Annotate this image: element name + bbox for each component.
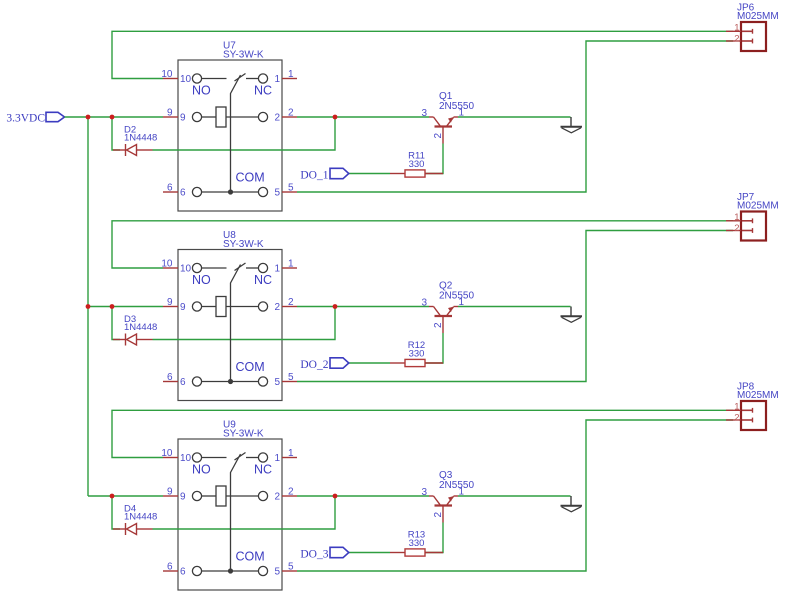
relay U8 COM contact: [192, 377, 267, 386]
wire relay pin2 to Q1 collector: [297, 116, 429, 118]
junction diode branch row 3: [110, 494, 115, 499]
wire JP7 pin2 to relay pin5 (COM net): [297, 231, 733, 382]
svg-text:6: 6: [180, 377, 186, 388]
svg-text:2: 2: [734, 223, 739, 234]
wire DO_1 port to R11: [349, 173, 390, 175]
svg-text:5: 5: [274, 377, 280, 388]
wire JP7 pin1 to relay pin10 (NO net): [112, 221, 733, 268]
wire R13 to Q3 base: [425, 523, 443, 553]
svg-text:10: 10: [180, 264, 192, 275]
relay U9 NO contact: [192, 453, 226, 462]
svg-text:9: 9: [180, 302, 186, 313]
svg-text:330: 330: [409, 349, 425, 360]
svg-text:M025MM: M025MM: [737, 201, 779, 212]
wire JP8 pin2 to relay pin5 (COM net): [297, 420, 733, 571]
transistor Q2 2N5550: [429, 307, 458, 334]
svg-text:6: 6: [180, 188, 186, 199]
svg-text:330: 330: [409, 159, 425, 170]
junction diode branch row 1: [110, 115, 115, 120]
connector JP7 designator: [737, 192, 779, 212]
transistor Q3 designator: [439, 470, 474, 491]
junction diode branch row 2: [110, 304, 115, 309]
svg-text:5: 5: [288, 183, 294, 194]
relay U9 armature: [231, 454, 241, 571]
connector JP7 pin numbers: [734, 212, 739, 234]
relay U8 outer pin numbers: [161, 259, 294, 384]
relay U7 outer pin numbers: [161, 69, 294, 194]
svg-text:2: 2: [288, 297, 294, 308]
relay U8 coil: [192, 297, 267, 317]
relay U7 coil: [192, 107, 267, 127]
svg-text:2: 2: [274, 302, 280, 313]
transistor Q2 pin numbers: [421, 297, 464, 328]
svg-text:DO_1: DO_1: [300, 170, 328, 182]
ground row 3: [561, 496, 583, 512]
transistor Q2 designator: [439, 281, 474, 302]
wire relay pin2 to Q2 collector: [297, 306, 429, 308]
relay U8 switch blade: [235, 263, 246, 271]
svg-text:NO: NO: [192, 84, 211, 98]
wire R11 to Q1 base: [425, 144, 443, 174]
svg-text:DO_3: DO_3: [300, 549, 328, 561]
wire flyback branch via D4: [112, 496, 335, 529]
relay U7 inner pin numbers: [180, 74, 280, 199]
svg-text:5: 5: [274, 188, 280, 199]
relay U7 COM contact: [192, 187, 267, 196]
svg-text:1: 1: [288, 448, 294, 459]
svg-text:2: 2: [734, 413, 739, 424]
diode D4 labels: [124, 504, 157, 523]
svg-text:1: 1: [459, 487, 465, 498]
transistor Q3 2N5550: [429, 496, 458, 523]
transistor Q3 pin numbers: [421, 487, 464, 518]
svg-text:1: 1: [288, 69, 294, 80]
svg-text:SY-3W-K: SY-3W-K: [223, 239, 264, 250]
svg-text:NC: NC: [254, 463, 272, 477]
svg-text:6: 6: [180, 567, 186, 578]
svg-text:5: 5: [288, 562, 294, 573]
svg-text:10: 10: [180, 453, 192, 464]
wire JP6 pin1 to relay pin10 (NO net): [112, 31, 733, 78]
svg-text:6: 6: [167, 183, 173, 194]
svg-text:NC: NC: [254, 84, 272, 98]
wire DO_3 port to R13: [349, 552, 390, 554]
svg-text:COM: COM: [236, 550, 265, 564]
svg-text:2: 2: [274, 113, 280, 124]
relay U7 NO contact: [192, 74, 226, 83]
relay U7 labels NO NC COM: [192, 84, 272, 185]
junction collector/flyback row 2: [333, 304, 338, 309]
relay U9 inner pin numbers: [180, 453, 280, 578]
resistor R12 330: [390, 359, 443, 366]
wire DO_2 port to R12: [349, 362, 390, 364]
transistor Q1 2N5550: [429, 117, 458, 144]
svg-text:9: 9: [167, 487, 173, 498]
svg-text:5: 5: [288, 372, 294, 383]
relay U9 NC contact: [246, 453, 268, 462]
connector JP6 designator: [737, 3, 779, 23]
svg-text:10: 10: [161, 448, 173, 459]
svg-text:1N4448: 1N4448: [124, 322, 157, 333]
svg-text:1: 1: [288, 259, 294, 270]
wire flyback branch via D3: [112, 307, 335, 340]
svg-text:330: 330: [409, 538, 425, 549]
svg-text:2: 2: [734, 34, 739, 45]
relay U7 SY-3W-K body: [178, 60, 282, 211]
relay U9 designator: [223, 420, 264, 440]
svg-text:2N5550: 2N5550: [439, 480, 474, 491]
relay U7 pin stubs: [163, 79, 297, 193]
svg-text:M025MM: M025MM: [737, 11, 779, 22]
svg-text:2: 2: [433, 133, 444, 139]
svg-text:2: 2: [433, 512, 444, 518]
relay U7 armature: [231, 75, 241, 192]
diode D4 1N4448: [113, 523, 153, 535]
relay U9 labels NO NC COM: [192, 463, 272, 564]
svg-text:10: 10: [161, 69, 173, 80]
wire flyback branch via D2: [112, 117, 335, 150]
svg-text:1: 1: [274, 453, 280, 464]
svg-text:1: 1: [734, 402, 739, 413]
wire Q1 emitter to ground: [458, 116, 571, 118]
svg-text:2: 2: [288, 487, 294, 498]
svg-text:9: 9: [180, 492, 186, 503]
svg-text:NC: NC: [254, 273, 272, 287]
svg-text:DO_2: DO_2: [300, 359, 328, 371]
svg-text:1: 1: [459, 108, 465, 119]
svg-text:9: 9: [167, 108, 173, 119]
svg-text:3.3VDC: 3.3VDC: [6, 112, 45, 124]
relay U7 NC contact: [246, 74, 268, 83]
connector JP7 M025MM: [726, 212, 766, 241]
relay U9 outer pin numbers: [161, 448, 294, 573]
relay U8 armature: [231, 265, 241, 382]
relay U9 coil: [192, 486, 267, 506]
svg-text:SY-3W-K: SY-3W-K: [223, 429, 264, 440]
relay U9 SY-3W-K body: [178, 439, 282, 590]
svg-text:1: 1: [274, 74, 280, 85]
svg-text:9: 9: [167, 297, 173, 308]
wire 3.3VDC rail to relay pin9 row 2: [88, 306, 163, 308]
svg-text:SY-3W-K: SY-3W-K: [223, 50, 264, 61]
port 3.3VDC: [6, 112, 64, 124]
diode D3 labels: [124, 314, 157, 333]
relay U8 inner pin numbers: [180, 264, 280, 389]
wire R12 to Q2 base: [425, 333, 443, 363]
connector JP6 pin numbers: [734, 23, 739, 45]
wire 3.3VDC rail to relay pin9 row 3: [88, 495, 163, 497]
relay U9 pin stubs: [163, 458, 297, 572]
svg-text:2N5550: 2N5550: [439, 291, 474, 302]
svg-text:2N5550: 2N5550: [439, 101, 474, 112]
resistor R12 labels: [408, 340, 425, 360]
svg-text:2: 2: [433, 322, 444, 328]
ground row 2: [561, 307, 583, 323]
svg-text:9: 9: [180, 113, 186, 124]
svg-text:6: 6: [167, 562, 173, 573]
svg-text:1N4448: 1N4448: [124, 133, 157, 144]
svg-text:1: 1: [734, 212, 739, 223]
wire 3.3VDC rail down: [87, 117, 89, 496]
svg-text:COM: COM: [236, 171, 265, 185]
relay U8 NC contact: [246, 263, 268, 272]
ground row 1: [561, 117, 583, 133]
svg-text:5: 5: [274, 567, 280, 578]
resistor R11 labels: [408, 151, 425, 171]
wire JP6 pin2 to relay pin5 (COM net): [297, 41, 733, 192]
diode D2 1N4448: [113, 144, 153, 156]
svg-text:3: 3: [421, 487, 427, 498]
relay U9 switch blade: [235, 453, 246, 461]
junction collector/flyback row 1: [333, 115, 338, 120]
relay U8 designator: [223, 230, 264, 250]
junction rail/pin9 row 1: [86, 115, 91, 120]
svg-text:10: 10: [161, 259, 173, 270]
port DO_1: [300, 168, 348, 181]
relay U9 COM contact: [192, 566, 267, 575]
svg-text:10: 10: [180, 74, 192, 85]
svg-text:2: 2: [288, 108, 294, 119]
relay U8 labels NO NC COM: [192, 273, 272, 374]
junction collector/flyback row 3: [333, 494, 338, 499]
svg-text:2: 2: [274, 492, 280, 503]
resistor R13 labels: [408, 530, 425, 550]
svg-text:COM: COM: [236, 360, 265, 374]
svg-text:1: 1: [734, 23, 739, 34]
wire JP8 pin1 to relay pin10 (NO net): [112, 410, 733, 457]
transistor Q1 pin numbers: [421, 108, 464, 139]
svg-text:NO: NO: [192, 463, 211, 477]
junction rail/pin9 row 2: [86, 304, 91, 309]
svg-text:1N4448: 1N4448: [124, 512, 157, 523]
relay U8 SY-3W-K body: [178, 250, 282, 401]
svg-text:6: 6: [167, 372, 173, 383]
connector JP8 designator: [737, 382, 779, 402]
wire Q2 emitter to ground: [458, 306, 571, 308]
relay U8 NO contact: [192, 263, 226, 272]
svg-text:1: 1: [459, 297, 465, 308]
diode D3 1N4448: [113, 334, 153, 346]
wire relay pin2 to Q3 collector: [297, 495, 429, 497]
wire 3.3VDC port to relay pin9: [65, 116, 164, 118]
connector JP8 pin numbers: [734, 402, 739, 424]
relay U7 designator: [223, 41, 264, 61]
diode D2 labels: [124, 125, 157, 144]
relay U7 switch blade: [235, 74, 246, 82]
wire Q3 emitter to ground: [458, 495, 571, 497]
port DO_3: [300, 547, 348, 560]
resistor R11 330: [390, 170, 443, 177]
svg-text:3: 3: [421, 298, 427, 309]
resistor R13 330: [390, 549, 443, 556]
relay U8 pin stubs: [163, 268, 297, 382]
svg-text:1: 1: [274, 264, 280, 275]
connector JP6 M025MM: [726, 22, 766, 51]
connector JP8 M025MM: [726, 401, 766, 430]
svg-text:M025MM: M025MM: [737, 390, 779, 401]
transistor Q1 designator: [439, 91, 474, 112]
svg-text:3: 3: [421, 108, 427, 119]
port DO_2: [300, 358, 348, 371]
svg-text:NO: NO: [192, 273, 211, 287]
